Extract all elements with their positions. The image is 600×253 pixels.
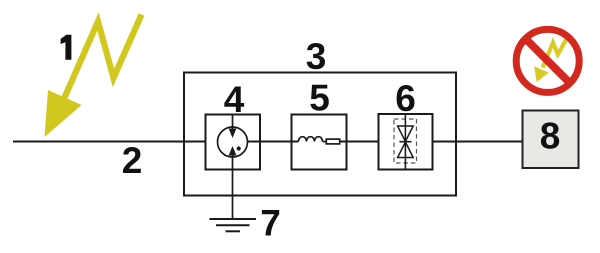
protective device enclosure 3 [184, 73, 456, 196]
sign ring [516, 29, 579, 92]
svg-text:7: 7 [260, 202, 281, 243]
GDT top arrow [232, 115, 234, 130]
svg-text:4: 4 [224, 79, 245, 120]
sign bolt [543, 35, 569, 67]
suppressor diode box 6 [379, 114, 433, 170]
protected equipment box 8 [523, 111, 579, 169]
ground symbol 7 [210, 218, 257, 220]
gas discharge tube circle U4 [218, 127, 248, 157]
GDT dot [237, 146, 241, 150]
filter box 5 [292, 115, 347, 170]
svg-text:6: 6 [395, 78, 416, 119]
svg-text:2: 2 [122, 140, 143, 181]
resistor R5 [326, 139, 339, 144]
TVS bottom diode triangle [398, 142, 414, 158]
wire (box4 to box5) [248, 141, 299, 143]
svg-text:8: 8 [540, 116, 561, 157]
gas discharge tube box 4 [206, 115, 261, 170]
TVS center bar [399, 141, 411, 143]
GDT bottom arrow [232, 155, 234, 170]
wire (box5 to box6) [340, 141, 379, 143]
wire (box6 to box8, output) [433, 141, 523, 143]
svg-text:5: 5 [309, 78, 330, 119]
TVS vertical line [404, 114, 406, 170]
TVS top diode triangle [398, 126, 414, 142]
dashed module outline [394, 119, 417, 163]
inductor L5 [299, 137, 323, 142]
lead [323, 141, 327, 143]
label 1 [61, 35, 72, 60]
ground lead wire [232, 170, 234, 220]
svg-text:3: 3 [306, 36, 327, 77]
no-lightning prohibition sign [516, 29, 579, 92]
sign slash [523, 37, 572, 86]
lightning surge arrow 1 [45, 15, 142, 138]
wire (left line, node 2) [13, 141, 206, 143]
